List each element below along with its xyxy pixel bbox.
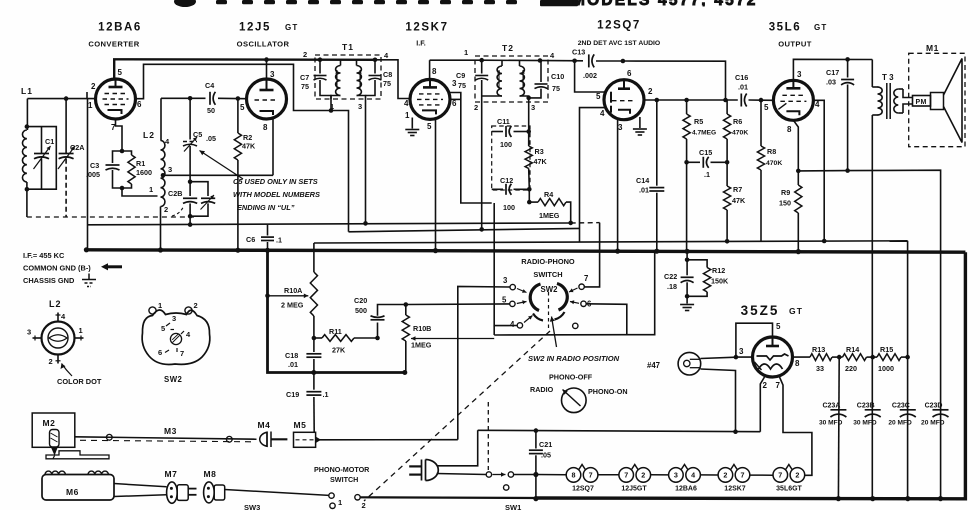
capacitor C19 .1 bbox=[286, 373, 329, 433]
svg-text:3: 3 bbox=[503, 276, 508, 285]
svg-text:.01: .01 bbox=[639, 186, 649, 195]
svg-text:4: 4 bbox=[600, 109, 605, 118]
resistor R4 1MEG bbox=[529, 190, 570, 223]
svg-text:500: 500 bbox=[355, 306, 367, 315]
svg-text:C22: C22 bbox=[664, 272, 677, 281]
svg-text:12SK7: 12SK7 bbox=[724, 486, 746, 493]
svg-text:C20: C20 bbox=[354, 296, 367, 305]
svg-text:R9: R9 bbox=[781, 188, 790, 197]
svg-text:5: 5 bbox=[427, 122, 432, 131]
B+ line H5 bbox=[314, 241, 908, 243]
wire: V3 pin3 AVC drop bbox=[448, 93, 492, 204]
wire: SW2 contact5 to volume control top bbox=[406, 303, 510, 306]
tube V3 12SK7 bbox=[404, 67, 457, 131]
trimmer capacitor C5 .05 bbox=[183, 98, 216, 181]
svg-text:75: 75 bbox=[383, 79, 391, 88]
svg-text:PHONO-OFF: PHONO-OFF bbox=[549, 373, 593, 382]
svg-text:C21: C21 bbox=[539, 440, 552, 449]
svg-text:C10: C10 bbox=[551, 72, 564, 81]
capacitor C21 .05 bbox=[529, 431, 552, 498]
speaker cone bbox=[944, 59, 963, 143]
svg-text:2: 2 bbox=[648, 87, 653, 96]
svg-text:12SK7: 12SK7 bbox=[405, 22, 448, 34]
switch SW2 contact 5 bbox=[502, 296, 527, 307]
svg-text:3: 3 bbox=[168, 165, 172, 174]
wire: plug top prong to AC line bbox=[437, 430, 478, 466]
svg-text:R5: R5 bbox=[694, 117, 703, 126]
svg-text:3: 3 bbox=[172, 314, 176, 323]
svg-text:C23A: C23A bbox=[822, 402, 840, 409]
variable capacitor C1 bbox=[41, 127, 43, 154]
connector M8 bbox=[204, 469, 225, 503]
svg-text:M4: M4 bbox=[258, 420, 271, 430]
wire: V4 pin3 cathode drop to bus bbox=[617, 120, 619, 252]
svg-text:3: 3 bbox=[270, 70, 275, 79]
B+ screen line H3 bbox=[349, 228, 580, 231]
svg-text:M7: M7 bbox=[165, 469, 178, 479]
wire: L2 tap3 line to R2 bottom and V2 pin8 bbox=[161, 173, 166, 178]
svg-text:.03: .03 bbox=[826, 78, 836, 87]
switch SW2 contact 4 bbox=[510, 316, 533, 330]
text CHASSIS GND with ground symbol bbox=[23, 274, 96, 287]
AC power plug bbox=[409, 460, 438, 481]
svg-text:3: 3 bbox=[797, 70, 802, 79]
svg-text:33: 33 bbox=[816, 364, 824, 373]
annotation SW2 IN RADIO POSITION with arrow bbox=[528, 317, 620, 364]
svg-text:100: 100 bbox=[500, 140, 512, 149]
wire: V4 pin4 drop bbox=[580, 108, 608, 243]
svg-text:1MEG: 1MEG bbox=[411, 341, 432, 350]
mechanical dashed link to SW1 bbox=[487, 402, 489, 470]
pilot lamp #47 bbox=[647, 352, 701, 375]
svg-text:7: 7 bbox=[624, 471, 628, 480]
capacitor C18 .01 bbox=[285, 338, 321, 373]
capacitor C15 .1 bbox=[687, 148, 728, 179]
label V4 12SQ7 2ND DET AVC 1ST AUDIO bbox=[578, 20, 660, 48]
svg-text:T 3: T 3 bbox=[882, 73, 894, 82]
switch SW2 contact 6 bbox=[570, 300, 592, 309]
svg-text:12BA6: 12BA6 bbox=[675, 486, 697, 493]
wire: V1 pin6 to T1 pin1 area bbox=[136, 64, 349, 232]
T2 tuning arrows bbox=[498, 70, 500, 90]
svg-text:5: 5 bbox=[240, 103, 245, 112]
capacitor C22 .18 and resistor R12 150K to ground bbox=[664, 251, 729, 310]
svg-text:C6: C6 bbox=[246, 235, 255, 244]
svg-text:M5: M5 bbox=[294, 420, 307, 430]
svg-text:1MEG: 1MEG bbox=[539, 211, 560, 220]
svg-text:.002: .002 bbox=[583, 71, 597, 80]
svg-text:6: 6 bbox=[627, 69, 632, 78]
svg-text:4: 4 bbox=[815, 100, 820, 109]
node dots on top line bbox=[318, 57, 323, 62]
svg-text:2ND DET AVC 1ST AUDIO: 2ND DET AVC 1ST AUDIO bbox=[578, 40, 660, 47]
svg-text:30 MFD: 30 MFD bbox=[819, 420, 843, 427]
svg-text:M8: M8 bbox=[204, 469, 217, 479]
svg-text:.1: .1 bbox=[276, 236, 282, 245]
resistor R5 4.7MEG bbox=[683, 100, 716, 162]
svg-text:6: 6 bbox=[158, 348, 162, 357]
wire: V4 pin5 diode plate riser bbox=[575, 61, 604, 92]
switch SW2 rotor blades bbox=[530, 284, 567, 332]
capacitor C16 .01 bbox=[740, 94, 742, 107]
note: C5 used only in sets bbox=[200, 151, 320, 213]
svg-text:GT: GT bbox=[285, 23, 299, 32]
svg-text:C5 USED ONLY IN SETS: C5 USED ONLY IN SETS bbox=[233, 177, 318, 186]
svg-text:27K: 27K bbox=[332, 346, 346, 355]
resistor R3 47K bbox=[525, 132, 547, 190]
svg-text:T2: T2 bbox=[502, 43, 514, 53]
svg-text:R10A: R10A bbox=[284, 286, 302, 295]
svg-text:150: 150 bbox=[779, 199, 791, 208]
svg-text:3: 3 bbox=[358, 102, 362, 111]
wire: V5 plate pin3 riser and line to T3 bbox=[793, 59, 872, 80]
text COMMON GND (B-) with arrow symbol bbox=[23, 263, 122, 272]
svg-text:C13: C13 bbox=[572, 48, 585, 57]
tube V4 12SQ7 bbox=[596, 69, 653, 132]
svg-text:C2A: C2A bbox=[70, 143, 84, 152]
svg-text:8: 8 bbox=[787, 125, 792, 134]
svg-text:C14: C14 bbox=[636, 176, 649, 185]
svg-text:2: 2 bbox=[164, 205, 168, 214]
wire: 35Z5 pins 3-5 strap bbox=[736, 323, 773, 357]
capacitor C14 .01 bbox=[636, 100, 664, 251]
wire: pilot lower return to AC line bbox=[701, 369, 736, 432]
svg-text:30 MFD: 30 MFD bbox=[853, 420, 877, 427]
switch SW2 contact 3 bbox=[503, 276, 527, 293]
wire: 35Z5 pin2 drop to AC line bbox=[760, 377, 764, 432]
svg-text:8: 8 bbox=[263, 123, 268, 132]
thick ground L to volume controls bbox=[268, 250, 406, 372]
svg-text:220: 220 bbox=[845, 364, 857, 373]
svg-text:7: 7 bbox=[741, 471, 745, 480]
svg-text:SW1: SW1 bbox=[505, 503, 521, 510]
on-off switch SW1 bbox=[486, 472, 533, 510]
svg-text:4: 4 bbox=[404, 99, 409, 108]
wire: V3 pin1 to ground bbox=[411, 118, 413, 129]
svg-text:.05: .05 bbox=[206, 134, 216, 143]
svg-text:OSCILLATOR: OSCILLATOR bbox=[237, 40, 290, 49]
wire: T1 pin4 jog down to V3 grid pin4 bbox=[375, 60, 410, 99]
wire: H2 drop to SW2 contact 7 bbox=[584, 223, 599, 287]
svg-text:1: 1 bbox=[405, 111, 410, 120]
svg-text:.005: .005 bbox=[86, 170, 100, 179]
svg-text:L1: L1 bbox=[21, 86, 33, 96]
T2 labels bbox=[464, 43, 555, 112]
svg-text:L2: L2 bbox=[49, 299, 62, 309]
control knob PHONO-OFF RADIO PHONO-ON bbox=[530, 373, 628, 413]
svg-text:M2: M2 bbox=[43, 418, 56, 428]
phono cable M3 bbox=[75, 426, 257, 442]
svg-text:20 MFD: 20 MFD bbox=[888, 420, 912, 427]
capacitor C7 75 bbox=[300, 60, 331, 99]
svg-text:7: 7 bbox=[778, 471, 782, 480]
svg-text:1: 1 bbox=[79, 326, 83, 335]
resistor R8 470K bbox=[757, 100, 782, 241]
wire: T2 pin3 drop through detector to bus area bbox=[528, 98, 530, 132]
bottom bus junction dots bbox=[533, 496, 538, 501]
svg-text:R12: R12 bbox=[712, 266, 725, 275]
electrolytic capacitors C23A C23B C23C C23D bbox=[819, 402, 846, 426]
svg-text:M6: M6 bbox=[66, 487, 79, 497]
T2 secondary coil bbox=[520, 66, 525, 96]
speaker PM magnet box bbox=[913, 96, 931, 107]
svg-text:R7: R7 bbox=[733, 185, 742, 194]
svg-text:L2: L2 bbox=[143, 130, 155, 140]
wire: SW2 contact4 to detector output bbox=[494, 203, 517, 326]
padder capacitor C2B (two variable sections) bbox=[168, 179, 215, 224]
mechanical gang dashed link line bbox=[27, 216, 196, 218]
svg-text:RADIO-PHONO: RADIO-PHONO bbox=[521, 257, 575, 266]
label V6 35Z5GT bbox=[741, 303, 804, 318]
svg-text:4.7MEG: 4.7MEG bbox=[692, 130, 716, 137]
wire: C23A drop bbox=[837, 357, 840, 499]
svg-text:8: 8 bbox=[795, 359, 800, 368]
svg-text:12BA6: 12BA6 bbox=[98, 22, 142, 34]
wire: V1 plate pin5 top line to T1 bbox=[114, 59, 375, 79]
svg-text:SW3: SW3 bbox=[244, 503, 260, 510]
wire: V2 pin8 drop bbox=[272, 119, 274, 175]
svg-text:1: 1 bbox=[464, 48, 468, 57]
resistor R2 47K bbox=[234, 99, 256, 251]
svg-text:12SQ7: 12SQ7 bbox=[572, 486, 594, 493]
svg-text:1: 1 bbox=[338, 498, 342, 507]
T1 tuning arrows bbox=[336, 70, 338, 90]
text COLOR DOT with arrow bbox=[57, 364, 102, 387]
svg-text:75: 75 bbox=[458, 81, 466, 90]
svg-text:C12: C12 bbox=[500, 176, 513, 185]
wire: V4 pin2 plate line to C16 and V5 pin5 bbox=[644, 99, 738, 101]
phono-motor switch SW3 bbox=[244, 465, 370, 510]
svg-text:12J5: 12J5 bbox=[239, 22, 271, 34]
resistor R7 47K bbox=[724, 162, 746, 241]
svg-text:SWITCH: SWITCH bbox=[533, 270, 562, 279]
tube V2 12J5GT bbox=[240, 70, 287, 132]
IF transformer T1 dashed box bbox=[315, 55, 381, 99]
svg-text:R3: R3 bbox=[535, 147, 544, 156]
capacitor C17 .03 bbox=[847, 59, 849, 77]
svg-text:C15: C15 bbox=[699, 148, 712, 157]
svg-text:PHONO-MOTOR: PHONO-MOTOR bbox=[314, 465, 370, 474]
svg-text:M1: M1 bbox=[926, 43, 939, 53]
wire: M5 to phono switch line bbox=[316, 439, 458, 441]
switch SW2 contact 7 bbox=[569, 274, 588, 292]
header: cut-off Firestone script logo fragment bbox=[174, 0, 578, 7]
svg-text:3: 3 bbox=[27, 328, 31, 337]
svg-text:C9: C9 bbox=[456, 71, 465, 80]
wire: V5 pin4 screen drop to B+ line bbox=[813, 100, 824, 241]
svg-text:C16: C16 bbox=[735, 73, 748, 82]
capacitor C3 .005 and resistor R1 1600 parallel bbox=[86, 149, 152, 191]
svg-text:SW2 IN RADIO POSITION: SW2 IN RADIO POSITION bbox=[528, 354, 620, 363]
svg-text:SWITCH: SWITCH bbox=[330, 475, 358, 484]
svg-text:COLOR DOT: COLOR DOT bbox=[57, 377, 102, 386]
variable capacitor C2A (tuning gang) bbox=[65, 99, 67, 154]
svg-text:1: 1 bbox=[158, 301, 162, 310]
connector M4 bbox=[258, 420, 288, 447]
svg-text:2: 2 bbox=[474, 103, 478, 112]
svg-text:R15: R15 bbox=[880, 345, 893, 354]
coil L2 socket bottom view bbox=[27, 299, 84, 366]
svg-text:R4: R4 bbox=[544, 190, 553, 199]
resistor R11 27K bbox=[314, 327, 378, 355]
capacitor C13 .002 bbox=[588, 54, 590, 67]
svg-text:5: 5 bbox=[764, 103, 769, 112]
svg-text:ENDING IN “UL”: ENDING IN “UL” bbox=[237, 203, 295, 212]
capacitor C9 75 bbox=[456, 60, 488, 229]
svg-text:2: 2 bbox=[795, 471, 799, 480]
IF transformer T2 dashed box bbox=[475, 56, 548, 102]
switch SW2 unused contact bbox=[573, 323, 578, 328]
svg-text:R6: R6 bbox=[733, 117, 742, 126]
svg-text:C23D: C23D bbox=[925, 402, 943, 409]
svg-text:75: 75 bbox=[552, 84, 560, 93]
svg-text:.05: .05 bbox=[541, 451, 551, 460]
wire: box bottom line bbox=[494, 334, 627, 336]
svg-text:2: 2 bbox=[641, 471, 645, 480]
svg-text:2: 2 bbox=[763, 381, 768, 390]
resistors R13 33, R14 220, R15 1000 bbox=[793, 345, 910, 373]
svg-text:35L6GT: 35L6GT bbox=[776, 486, 802, 493]
wire: M8 to SW3 bbox=[225, 490, 329, 496]
capacitor C8 75 bbox=[366, 60, 393, 96]
svg-text:5: 5 bbox=[161, 324, 165, 333]
svg-text:T1: T1 bbox=[342, 42, 354, 52]
svg-text:2: 2 bbox=[194, 301, 198, 310]
svg-text:.1: .1 bbox=[323, 390, 329, 399]
phono pickup M2 bbox=[32, 413, 75, 459]
wire: V3 pin6 to T2 bbox=[450, 98, 461, 100]
svg-text:4: 4 bbox=[691, 471, 695, 480]
svg-text:7: 7 bbox=[776, 381, 781, 390]
svg-text:7: 7 bbox=[584, 274, 588, 283]
tube V5 35L6GT bbox=[764, 70, 820, 134]
tube V1 12BA6 bbox=[88, 68, 142, 132]
T2 primary coil bbox=[497, 66, 502, 96]
header: cut-off MODELS text bbox=[572, 0, 758, 9]
speaker M1 dashed box bbox=[909, 53, 965, 146]
svg-text:5: 5 bbox=[776, 322, 781, 331]
svg-text:C3: C3 bbox=[90, 161, 99, 170]
svg-text:1: 1 bbox=[149, 185, 153, 194]
svg-text:PHONO-ON: PHONO-ON bbox=[588, 387, 628, 396]
capacitor C4 50 bbox=[209, 92, 211, 105]
svg-text:75: 75 bbox=[301, 82, 309, 91]
svg-text:2: 2 bbox=[49, 357, 53, 366]
motor shaft to M7 bbox=[114, 484, 167, 487]
svg-text:150K: 150K bbox=[711, 277, 729, 286]
text RADIO-PHONO SWITCH SW2 bbox=[521, 257, 575, 294]
svg-text:R1: R1 bbox=[136, 159, 145, 168]
svg-text:C7: C7 bbox=[300, 73, 309, 82]
wire: V4 pin1 ground bbox=[639, 117, 641, 128]
svg-text:3: 3 bbox=[452, 79, 457, 88]
AVC bus line H2 bbox=[88, 223, 571, 225]
svg-text:OUTPUT: OUTPUT bbox=[778, 40, 812, 49]
svg-text:5: 5 bbox=[118, 68, 123, 77]
svg-text:.18: .18 bbox=[667, 282, 677, 291]
svg-text:20 MFD: 20 MFD bbox=[921, 420, 945, 427]
detector dashed box bbox=[492, 126, 530, 190]
svg-text:100: 100 bbox=[503, 203, 515, 212]
svg-text:5: 5 bbox=[596, 92, 601, 101]
capacitor C10 75 bbox=[529, 61, 564, 98]
svg-text:50: 50 bbox=[207, 106, 215, 115]
svg-text:1600: 1600 bbox=[136, 168, 152, 177]
B- bus right side down and bottom run bbox=[536, 252, 965, 499]
record bar under needle bbox=[46, 451, 109, 459]
bus junction dots bbox=[84, 247, 89, 252]
svg-text:I.F.= 455 KC: I.F.= 455 KC bbox=[23, 251, 65, 260]
speaker voice coil bbox=[931, 93, 944, 110]
wire: V3 pin5 cathode drop to bus bbox=[435, 119, 437, 251]
wire: R1/C3 bottom to L2 tap1 bbox=[122, 188, 158, 196]
svg-text:C4: C4 bbox=[205, 81, 214, 90]
capacitor C12 100 bbox=[492, 176, 530, 212]
capacitor C6 .1 bbox=[246, 225, 282, 251]
svg-text:SW2: SW2 bbox=[164, 375, 183, 384]
svg-text:1000: 1000 bbox=[878, 364, 894, 373]
svg-text:2: 2 bbox=[303, 50, 307, 59]
B- common bus thick line bbox=[86, 250, 965, 252]
AC line to rectifier bbox=[478, 430, 761, 431]
svg-text:R14: R14 bbox=[846, 345, 859, 354]
potentiometer R10B 1MEG with wiper bbox=[402, 305, 494, 373]
svg-text:RADIO: RADIO bbox=[530, 385, 554, 394]
svg-text:C2B: C2B bbox=[168, 189, 182, 198]
phono motor M6 bbox=[42, 471, 114, 500]
connector M7 bbox=[165, 469, 197, 503]
svg-text:COMMON GND (B-): COMMON GND (B-) bbox=[23, 264, 91, 273]
wire: 35Z5 pin7 to heater string bbox=[780, 377, 812, 475]
antenna coil L1 with C1 box bbox=[26, 99, 28, 130]
svg-text:R10B: R10B bbox=[413, 324, 431, 333]
svg-text:47K: 47K bbox=[534, 157, 548, 166]
resistor R9 150 bbox=[779, 171, 802, 252]
mechanical dashed link SW2 to SW3 bbox=[364, 331, 550, 501]
svg-text:470K: 470K bbox=[766, 160, 782, 167]
svg-text:C17: C17 bbox=[826, 68, 839, 77]
oscillator coil L2 bbox=[143, 98, 172, 250]
svg-text:C23C: C23C bbox=[892, 402, 910, 409]
capacitor C11 100 bbox=[492, 117, 529, 149]
label V1 12BA6 CONVERTER bbox=[88, 22, 142, 49]
svg-text:C8: C8 bbox=[383, 70, 392, 79]
svg-text:35L6: 35L6 bbox=[769, 22, 802, 34]
svg-text:1: 1 bbox=[88, 101, 93, 110]
svg-text:3: 3 bbox=[739, 347, 744, 356]
svg-text:12SQ7: 12SQ7 bbox=[597, 20, 641, 32]
svg-text:2 MEG: 2 MEG bbox=[281, 301, 304, 310]
svg-text:C11: C11 bbox=[497, 117, 510, 126]
svg-text:WITH MODEL NUMBERS: WITH MODEL NUMBERS bbox=[233, 190, 320, 199]
cathode feedback line H6 bbox=[798, 170, 940, 498]
heater string with tube pin circles bbox=[536, 465, 805, 493]
wire: L2 pin4 top line through C4 to V2 pin5 bbox=[161, 97, 206, 99]
T1 primary coil bbox=[336, 66, 341, 96]
potentiometer R10A 2 MEG with wiper bbox=[265, 243, 317, 338]
svg-text:2: 2 bbox=[91, 82, 96, 91]
svg-text:C5: C5 bbox=[193, 130, 202, 139]
svg-text:.01: .01 bbox=[288, 360, 298, 369]
svg-text:M3: M3 bbox=[164, 426, 177, 436]
svg-text:470K: 470K bbox=[732, 130, 748, 137]
svg-text:3: 3 bbox=[618, 123, 623, 132]
svg-text:R11: R11 bbox=[329, 327, 342, 336]
switch SW2 bottom view bbox=[142, 301, 210, 384]
label V2 12J5GT OSCILLATOR bbox=[237, 22, 299, 49]
svg-text:C23B: C23B bbox=[857, 402, 875, 409]
svg-text:SW2: SW2 bbox=[541, 285, 559, 294]
